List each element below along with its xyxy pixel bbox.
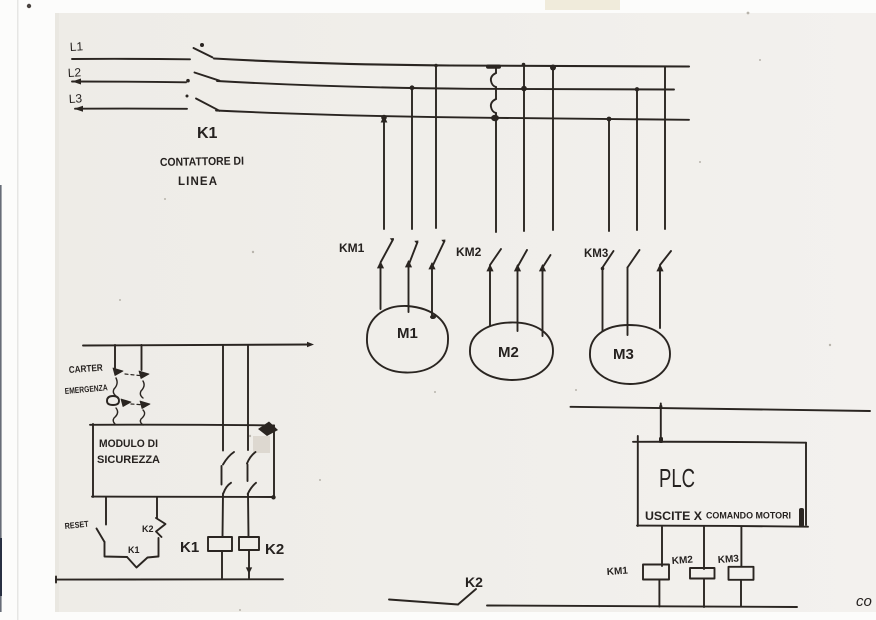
svg-text:L1: L1 (69, 39, 83, 54)
svg-text:KM3: KM3 (717, 554, 739, 566)
svg-text:M2: M2 (498, 344, 519, 361)
svg-text:L2: L2 (67, 65, 81, 80)
svg-text:KM2: KM2 (456, 245, 482, 259)
svg-text:KM3: KM3 (584, 248, 608, 260)
svg-text:MODULO DI: MODULO DI (99, 438, 158, 450)
svg-text:L3: L3 (68, 91, 82, 106)
svg-text:LINEA: LINEA (178, 176, 217, 188)
svg-text:K1: K1 (197, 125, 218, 142)
svg-text:K2: K2 (265, 541, 284, 558)
svg-text:KM1: KM1 (339, 241, 365, 255)
svg-text:K2: K2 (465, 574, 483, 590)
svg-text:K1: K1 (180, 539, 199, 556)
svg-text:M3: M3 (613, 346, 634, 363)
svg-text:co: co (856, 593, 872, 610)
svg-text:KM1: KM1 (606, 566, 628, 578)
svg-text:USCITE X: USCITE X (645, 511, 702, 523)
svg-text:COMANDO MOTORI: COMANDO MOTORI (706, 511, 791, 522)
svg-text:M1: M1 (397, 325, 418, 342)
svg-text:PLC: PLC (659, 463, 695, 493)
svg-text:KM2: KM2 (671, 555, 693, 567)
svg-text:K2: K2 (142, 524, 154, 534)
svg-text:SICUREZZA: SICUREZZA (97, 454, 160, 466)
svg-text:CONTATTORE DI: CONTATTORE DI (160, 156, 244, 169)
svg-text:K1: K1 (128, 545, 140, 555)
